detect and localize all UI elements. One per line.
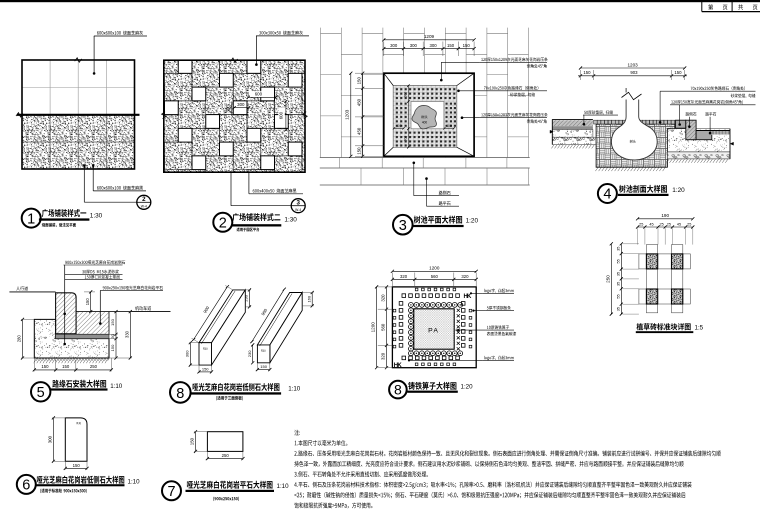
svg-text:320: 320 (381, 294, 386, 302)
dim 150 bar 2 (257, 369, 269, 371)
svg-text:300: 300 (237, 102, 245, 107)
svg-text:150: 150 (73, 463, 81, 468)
dim 150 curb reveal (90, 292, 92, 312)
svg-text:35: 35 (616, 307, 620, 311)
svg-text:25: 25 (659, 222, 663, 226)
svg-text:55: 55 (616, 294, 620, 298)
drawing 1: plaza paving pattern 1 plan (16, 31, 151, 228)
svg-text:1:10: 1:10 (288, 385, 301, 392)
leader: top label 600x600x100 (94, 35, 147, 37)
svg-text:45: 45 (677, 222, 681, 226)
mortar bed strip (56, 334, 109, 338)
square border (22, 60, 135, 169)
detail reference bubble 3/W-4 (291, 199, 305, 213)
bottom dim chain 150/150/250 (34, 369, 111, 371)
dim 150 (195, 432, 197, 452)
svg-text:280: 280 (17, 335, 22, 343)
svg-text:25: 25 (639, 222, 643, 226)
svg-text:400: 400 (396, 124, 402, 128)
top chain 320/560/320 (392, 278, 476, 280)
tree trunk and root ball (611, 88, 657, 160)
pool frame outer square (384, 73, 474, 156)
svg-text:3: 3 (399, 218, 407, 234)
top chain 25/45/25/25/45/25 (638, 226, 693, 228)
svg-text:400: 400 (422, 120, 428, 124)
svg-text:W-4: W-4 (141, 205, 147, 209)
pool frame inner square (393, 86, 456, 148)
svg-text:45: 45 (649, 222, 653, 226)
labels top: curb spec (65, 260, 125, 264)
svg-text:160: 160 (306, 295, 311, 302)
svg-text:35: 35 (616, 247, 620, 251)
svg-text:35: 35 (616, 272, 620, 276)
paving grid lines (49, 60, 51, 115)
svg-text:300: 300 (403, 136, 407, 142)
drawing 8b: cast iron grate plan (371, 266, 516, 399)
svg-text:2: 2 (142, 196, 146, 203)
road hatch layer (76, 312, 109, 335)
dimension 1203 (581, 67, 685, 69)
svg-text:320: 320 (400, 274, 408, 279)
drawing 6: low curb stone profile (17, 416, 140, 494)
dim 250 (207, 458, 243, 460)
leader: bottom label 600x600x100 (92, 165, 95, 170)
right dim chain 150/30/150 (115, 312, 117, 358)
ring of medium square holes (402, 294, 406, 298)
ring of small square holes (outer) (415, 288, 418, 291)
curb and gutter bands below grid (320, 157, 530, 159)
dim 900 bar 2 (252, 289, 284, 341)
central PA planting area (414, 309, 454, 349)
svg-text:300: 300 (403, 92, 407, 98)
hopscotch tile joints and white 300x300 insets (151, 46, 179, 74)
interior dimension 600 vertical (285, 101, 287, 129)
page number box (702, 2, 760, 12)
leader to detail reference 2/W-4 (83, 169, 85, 202)
label: 5mm stainless strip (487, 306, 511, 310)
svg-text:8: 8 (394, 382, 402, 398)
svg-text:190: 190 (661, 213, 669, 218)
svg-text:150: 150 (85, 298, 90, 306)
tree trunk blob (412, 105, 437, 128)
left chain 320/560/320 (386, 287, 388, 368)
gray edging block (676, 120, 686, 128)
svg-text:450: 450 (356, 98, 361, 106)
svg-text:250: 250 (90, 364, 98, 369)
title 8a: low curb stones (170, 382, 191, 403)
granite stipple lower field (22, 115, 135, 169)
drawing 4: tree pool section (550, 62, 756, 203)
title 2: plaza paving style 2 (213, 213, 232, 232)
svg-text:150: 150 (447, 43, 455, 48)
pattern square border (164, 60, 305, 172)
svg-text:250: 250 (605, 275, 610, 283)
svg-text:300: 300 (48, 435, 53, 443)
svg-text:150: 150 (463, 43, 471, 48)
svg-text:1:20: 1:20 (461, 383, 474, 390)
sidewalk line (9, 291, 55, 293)
svg-text:1:20: 1:20 (672, 187, 685, 194)
svg-text:600: 600 (255, 92, 263, 97)
svg-text:150: 150 (202, 366, 209, 371)
label: road curb stone (bottom) (413, 162, 416, 165)
svg-text:1203: 1203 (627, 62, 638, 67)
svg-text:230: 230 (244, 294, 249, 301)
stippled squares (646, 254, 657, 269)
subgrade ticks right (666, 159, 728, 163)
svg-text:300: 300 (184, 350, 189, 357)
title: grass paver block (637, 323, 691, 330)
left dimension 1203 (350, 73, 352, 156)
bar 2 (257, 293, 302, 345)
svg-text:230: 230 (247, 350, 252, 357)
svg-text:25: 25 (687, 222, 691, 226)
svg-text:35: 35 (616, 282, 620, 286)
svg-text:150: 150 (110, 344, 115, 351)
svg-text:600: 600 (278, 111, 283, 119)
svg-text:25: 25 (667, 222, 671, 226)
label: 50mm sand bed (584, 110, 613, 114)
right side stipple base (667, 129, 730, 152)
label: road curb stone (686, 112, 697, 116)
svg-text:2: 2 (219, 216, 227, 232)
svg-text:W-4: W-4 (295, 208, 301, 212)
stipple base field (164, 60, 305, 172)
dimension chain 150/903/150 (578, 75, 687, 77)
title 1: plaza paving style 1 (22, 209, 41, 228)
svg-text:1209: 1209 (424, 34, 435, 39)
svg-text:1: 1 (27, 211, 35, 227)
title 7 (162, 481, 181, 500)
label: road flat stone (705, 112, 716, 116)
roadway line (109, 311, 171, 313)
drawing 8a: two granite curb bars isometric (170, 285, 314, 403)
svg-text:300: 300 (410, 43, 418, 48)
svg-text:250: 250 (222, 453, 230, 458)
top dim 190 (638, 218, 693, 220)
leader to detail reference 3/W-4 (230, 172, 232, 206)
right dim 330 (129, 312, 131, 358)
svg-text:1200: 1200 (429, 266, 440, 271)
trunk break mark (625, 93, 641, 100)
paver band dark squares (396, 88, 398, 90)
tree pit basket weave (596, 124, 675, 167)
sidewalk paving block left (552, 119, 593, 126)
svg-text:150: 150 (110, 318, 115, 325)
title 6 (17, 475, 36, 494)
svg-text:4: 4 (603, 187, 611, 203)
svg-text:150: 150 (190, 437, 195, 445)
background paving running-bond grid (320, 28, 322, 158)
svg-text:5: 5 (37, 385, 45, 401)
detail reference bubble 2/W-4 (137, 195, 151, 209)
svg-text:150: 150 (583, 70, 591, 75)
svg-text:1:5: 1:5 (695, 324, 704, 331)
subgrade hatch ticks (551, 145, 594, 149)
pool interior vertical dim 300/300 (407, 86, 409, 148)
svg-text:560: 560 (431, 274, 439, 279)
title 3: tree pool plan (393, 215, 413, 235)
svg-text:1200: 1200 (371, 322, 376, 333)
paver row left of trunk (594, 120, 627, 124)
dim 300 bar 1 (189, 343, 191, 365)
left chain 35/55/35/35/55/35 (620, 244, 622, 314)
small arrow right edge (730, 142, 733, 145)
interior dimension 600 (250, 91, 268, 97)
concrete footing (34, 319, 109, 358)
left dim 280 (22, 319, 24, 358)
heavy boundary line mid (17, 114, 140, 116)
svg-text:1:10: 1:10 (128, 478, 141, 485)
label: flat stone spec (103, 286, 163, 290)
svg-text:1:10: 1:10 (110, 383, 123, 390)
grate outer frame (392, 287, 476, 368)
svg-text:150: 150 (674, 70, 682, 75)
label: logo raised 3mm (top) (484, 289, 514, 294)
left dimension chain 150/450/450/150 (362, 73, 364, 156)
svg-text:3: 3 (296, 199, 300, 206)
svg-text:7: 7 (167, 484, 175, 500)
leader: top label 300x300x50 (256, 35, 309, 37)
flat gutter stone (696, 131, 712, 140)
vertical strips (646, 245, 657, 313)
svg-text:6: 6 (22, 478, 30, 494)
grass paver standard block detail (605, 213, 703, 333)
interior dimension 300 (235, 102, 247, 107)
svg-text:300: 300 (429, 43, 437, 48)
leader into curb (64, 265, 66, 345)
drawing 7: flat stone profile (162, 430, 289, 501)
svg-text:1:10: 1:10 (277, 483, 290, 490)
dim 150 bar 1 (199, 371, 212, 373)
mitre joints (384, 73, 394, 85)
label: road flat stone (bottom) (425, 177, 428, 180)
svg-text:150: 150 (62, 364, 70, 369)
tree pool white mask (384, 73, 474, 156)
svg-text:903: 903 (630, 70, 638, 75)
svg-text:PA: PA (428, 328, 439, 335)
mortar strip (552, 126, 593, 129)
left dim 1200 (376, 287, 378, 368)
top dimension 1209 (384, 39, 474, 41)
svg-text:150: 150 (260, 364, 267, 369)
svg-text:8: 8 (176, 386, 184, 402)
rubble subbase (552, 137, 596, 144)
lower rubble band (667, 152, 730, 159)
curb stone block (686, 120, 696, 140)
label: logo raised 3mm (bottom) (484, 356, 514, 361)
label: 70x190x250 curb (484, 86, 538, 90)
dim 900 along bar 1 (194, 287, 228, 340)
subgrade hatch ticks (34, 358, 109, 363)
dim 150 (65, 467, 87, 469)
svg-text:320: 320 (381, 352, 386, 360)
svg-text:1:20: 1:20 (466, 217, 479, 224)
label: granite edging 1203 (481, 113, 547, 117)
top dimension chain 300/300/300/150/150 (384, 48, 474, 50)
dim 230 bar 1 (249, 290, 251, 307)
svg-text:330: 330 (124, 330, 129, 338)
title 4: tree pool section (598, 184, 617, 203)
title 5: curb installation (31, 382, 50, 401)
dim 160 bar 2 (311, 293, 313, 306)
dim 230 bar 2 (252, 345, 254, 363)
ring of circular holes (409, 303, 414, 308)
svg-text:1:30: 1:30 (90, 212, 103, 219)
grass paver band inside pool (393, 86, 456, 148)
svg-text:150: 150 (356, 147, 361, 155)
aggregate base (552, 130, 593, 138)
svg-text:560: 560 (381, 323, 386, 331)
svg-text:300: 300 (226, 105, 231, 113)
svg-text:1:30: 1:30 (284, 216, 297, 223)
break marks (231, 58, 238, 62)
left 150 dim ticks (580, 70, 582, 80)
curb stone (56, 293, 77, 334)
svg-text:150: 150 (356, 77, 361, 85)
dim 300 (52, 418, 54, 461)
drawing 5: curb stone installation section (9, 260, 170, 401)
top dim 1200 (392, 270, 476, 272)
svg-text:450: 450 (356, 127, 361, 135)
label: 70x190x250 gray curb (691, 86, 745, 90)
svg-text:150: 150 (41, 364, 49, 369)
break marks (75, 58, 82, 62)
svg-text:55: 55 (616, 259, 620, 263)
svg-text:1203: 1203 (344, 109, 349, 120)
road brick row (712, 131, 730, 135)
leader: bottom label 600x400x50 (248, 172, 250, 194)
label: 10mm cast iron grate (487, 325, 509, 329)
label: granite edging 1209 (481, 57, 547, 61)
drawing 3: tree pool plan (320, 28, 548, 235)
sheet top border (0, 0, 760, 2)
horizontal strips (639, 254, 690, 269)
left dim 250 (610, 244, 612, 314)
svg-text:320: 320 (461, 274, 469, 279)
label: 120x150 granite edging (671, 100, 742, 104)
svg-text:300: 300 (390, 43, 398, 48)
svg-text:400: 400 (446, 124, 452, 128)
drawing 2: plaza paving pattern 2 plan (137, 31, 330, 232)
title 8b: cast iron grate (389, 381, 407, 399)
general notes (294, 430, 720, 509)
paver row right of trunk (639, 120, 675, 124)
